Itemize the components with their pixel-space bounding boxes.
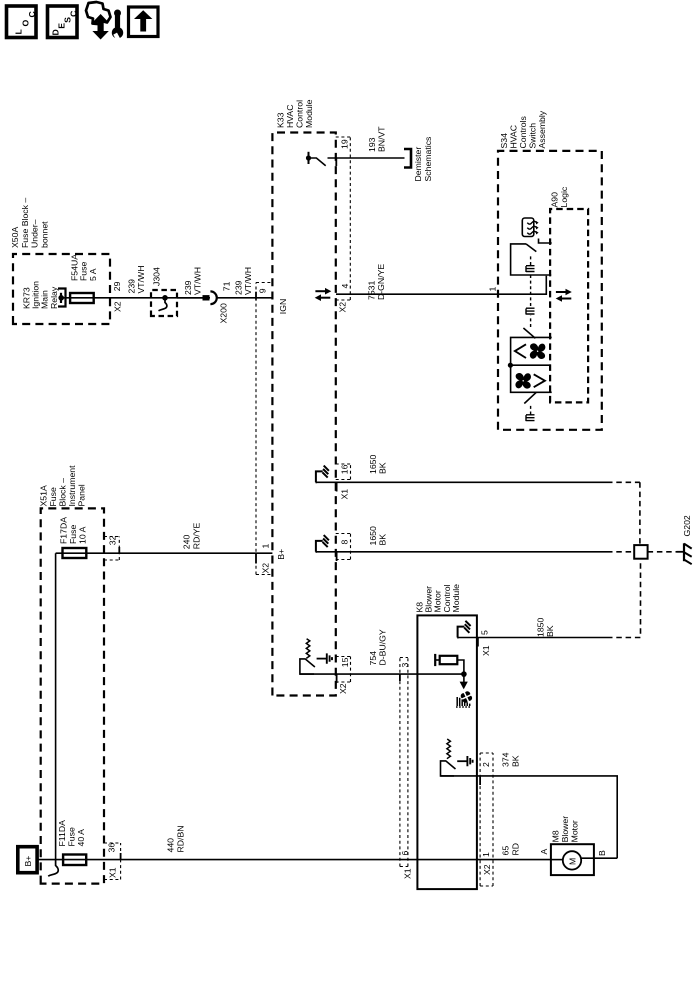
svg-text:Control: Control — [294, 100, 304, 128]
svg-text:B+: B+ — [276, 549, 286, 560]
svg-text:Fuse: Fuse — [48, 487, 58, 506]
battery terminal B+ — [18, 847, 37, 873]
svg-text:BK: BK — [378, 462, 388, 474]
svg-text:Module: Module — [451, 584, 461, 613]
blower motor M8 box — [551, 844, 594, 875]
svg-text:1: 1 — [481, 852, 491, 857]
svg-text:X200: X200 — [219, 303, 229, 323]
svg-text:19: 19 — [339, 139, 349, 149]
serial data arrows inside A90 — [556, 289, 572, 302]
svg-text:40 A: 40 A — [76, 829, 86, 847]
internal ground at pin 16 of K33 — [316, 466, 329, 483]
node junction dot K8 — [461, 671, 467, 677]
connector strip at pin 15 — [336, 657, 351, 683]
svg-text:bonnet: bonnet — [39, 221, 49, 248]
connector strip X2 bottom of K33 (pins 19,4) — [349, 137, 351, 300]
svg-text:Under–: Under– — [30, 219, 40, 248]
svg-text:X1: X1 — [107, 867, 117, 878]
connector strip at pin 8 — [336, 534, 351, 560]
heater element icon in S34 — [522, 218, 538, 237]
off-page connector bracket to Demister Schematics — [404, 149, 411, 168]
fuse F11DA — [63, 855, 86, 866]
wire 193 BN/VT from pin 19 — [328, 157, 405, 159]
svg-text:1650: 1650 — [368, 455, 378, 474]
inline connector X200 female terminal — [210, 291, 216, 304]
pin tick at pin 16 — [336, 482, 338, 491]
svg-text:X1: X1 — [339, 489, 349, 500]
fuse F17DA — [56, 552, 273, 554]
svg-text:RD/YE: RD/YE — [191, 522, 201, 549]
wire to ground G202 — [648, 551, 677, 553]
svg-text:239: 239 — [127, 279, 137, 294]
svg-text:7531: 7531 — [366, 281, 376, 300]
svg-text:Controls: Controls — [518, 115, 528, 148]
pin tick at pin 9 — [255, 292, 257, 300]
drive arrow to fan in K8 — [460, 674, 468, 689]
icon LOC button — [7, 6, 38, 38]
splice J304 box — [151, 290, 177, 316]
svg-text:4: 4 — [340, 284, 350, 289]
svg-text:X1: X1 — [481, 645, 491, 656]
internal ground at pin 5 of K8 — [457, 621, 470, 638]
svg-text:239: 239 — [234, 280, 244, 295]
svg-text:Instrument: Instrument — [67, 465, 77, 507]
svg-text:HVAC: HVAC — [285, 105, 295, 129]
svg-text:HVAC: HVAC — [509, 125, 519, 149]
svg-text:RD/BN: RD/BN — [175, 825, 185, 852]
ground G202 — [677, 543, 692, 564]
pin tick at pin 8 — [336, 552, 338, 561]
svg-text:D-GN/YE: D-GN/YE — [376, 264, 386, 300]
wire 1650 BK from pin 16 — [316, 481, 607, 483]
svg-text:A: A — [539, 849, 549, 855]
svg-text:Panel: Panel — [77, 484, 87, 506]
wire motor return from M8 — [581, 857, 617, 859]
fan icon inside K8 — [458, 689, 475, 706]
fan icon upper cell — [529, 342, 547, 360]
icon swap-with-wrench — [86, 2, 123, 43]
svg-text:8: 8 — [339, 540, 349, 545]
svg-text:C: C — [69, 10, 79, 17]
svg-text:X2: X2 — [338, 683, 348, 694]
pin tick at pin 2 — [479, 776, 481, 785]
svg-text:1650: 1650 — [368, 526, 378, 545]
svg-text:Switch: Switch — [528, 123, 538, 149]
switch to pin 19 inside K33 — [306, 152, 326, 166]
svg-text:10 A: 10 A — [77, 526, 87, 544]
module K8 Blower Motor Control Module box — [417, 615, 477, 889]
wire ignition feed inside X50A — [61, 297, 110, 299]
wire 239 VT/WH segment 1 — [110, 297, 203, 299]
svg-text:Block –: Block – — [58, 478, 68, 507]
solid state ground switch at pin 2 inside K8 — [441, 739, 473, 776]
svg-text:65: 65 — [501, 846, 511, 856]
speed ramp hatch inside K8 — [456, 697, 471, 707]
svg-text:BK: BK — [545, 625, 555, 637]
svg-text:Logic: Logic — [559, 186, 569, 207]
svg-text:F11DA: F11DA — [57, 820, 67, 847]
svg-text:Fuse: Fuse — [66, 827, 76, 846]
fuse block X50A box — [13, 254, 110, 324]
wire ground bus from pin 5 of K8 — [607, 559, 641, 638]
svg-text:6: 6 — [400, 851, 410, 856]
wire 754 into K8 pin 3 to internal node — [417, 673, 464, 675]
svg-text:B: B — [597, 850, 607, 856]
svg-text:Assembly: Assembly — [537, 110, 547, 148]
svg-text:X2: X2 — [260, 563, 270, 574]
svg-text:Demister: Demister — [413, 147, 423, 182]
svg-text:440: 440 — [166, 838, 176, 853]
svg-text:5 A: 5 A — [88, 268, 98, 281]
connector strip at pin 32 — [104, 537, 119, 561]
svg-text:M: M — [568, 858, 578, 865]
svg-text:X2: X2 — [482, 864, 492, 875]
svg-text:29: 29 — [112, 281, 122, 291]
module K33 HVAC Control Module box — [272, 133, 335, 696]
switch assembly S34 box — [498, 151, 602, 430]
internal ground at pin 8 of K33 — [316, 535, 329, 552]
wire 7531 D-GN/YE — [336, 276, 546, 295]
wire motor feed into M8 — [551, 859, 563, 861]
svg-text:F17DA: F17DA — [58, 517, 68, 544]
svg-text:S34: S34 — [499, 133, 509, 149]
svg-text:240: 240 — [182, 535, 192, 550]
svg-text:1: 1 — [487, 287, 497, 292]
svg-text:G202: G202 — [682, 515, 692, 536]
svg-text:X51A: X51A — [39, 485, 49, 506]
wire 1650 BK from pin 8 — [316, 551, 607, 553]
pin tick at pin 1 — [255, 553, 257, 563]
wire 239 VT/WH segment 3 — [217, 297, 272, 299]
solid state ground switch at pin 15 inside K33 — [300, 639, 332, 674]
svg-text:BN/VT: BN/VT — [377, 126, 387, 152]
pin tick at S34 pin 1 — [497, 288, 499, 294]
svg-text:BK: BK — [378, 534, 388, 546]
splice J304 — [162, 295, 168, 301]
splice to F17DA branch — [55, 553, 57, 859]
pin tick at pin 3 — [399, 674, 401, 681]
svg-text:754: 754 — [368, 651, 378, 666]
svg-text:1850: 1850 — [536, 618, 546, 637]
svg-text:239: 239 — [183, 280, 193, 295]
wire ground bus from pin 16 — [607, 481, 640, 483]
wire ground bus from pin 8 — [607, 551, 634, 553]
connector strip at pin 16 — [336, 464, 351, 480]
wire 1850 BK from pin 5 — [458, 637, 607, 639]
svg-text:Motor: Motor — [570, 820, 580, 842]
pin tick at pin 32 — [118, 547, 120, 553]
svg-text:1: 1 — [260, 544, 270, 549]
svg-text:IGN: IGN — [278, 299, 288, 314]
svg-text:O: O — [21, 20, 31, 27]
fan icon lower cell — [514, 372, 532, 390]
icon up-arrow button — [129, 7, 159, 37]
svg-text:15: 15 — [340, 657, 350, 667]
svg-text:L: L — [14, 29, 24, 35]
svg-text:J304: J304 — [152, 267, 162, 286]
svg-text:B+: B+ — [23, 856, 33, 867]
svg-text:5: 5 — [480, 630, 490, 635]
svg-text:2: 2 — [481, 762, 491, 767]
svg-text:16: 16 — [339, 464, 349, 474]
wire battery feed trunk — [37, 859, 551, 861]
inline connector X200 male terminal — [203, 295, 210, 300]
svg-text:M8: M8 — [551, 830, 561, 842]
svg-text:9: 9 — [257, 288, 267, 293]
logic module A90 box — [550, 209, 588, 402]
svg-text:D-BU/GY: D-BU/GY — [378, 629, 388, 665]
fan speed switch upper section in S34 — [511, 239, 552, 276]
svg-text:VT/WH: VT/WH — [193, 267, 203, 295]
fuse F54UA — [70, 293, 94, 303]
ground splice junction — [634, 545, 647, 559]
pin tick at pin 5 — [477, 638, 479, 647]
wire 239 VT/WH segment 2 — [177, 297, 210, 299]
svg-text:RD: RD — [510, 843, 520, 856]
svg-text:Fuse Block –: Fuse Block – — [20, 198, 30, 248]
mechanical link dashes and detents — [526, 273, 535, 421]
svg-text:X50A: X50A — [10, 227, 20, 248]
svg-text:3: 3 — [400, 663, 410, 668]
wire 754 D-BU/GY from pin 15 — [300, 673, 418, 675]
pin tick at pin 36 — [120, 853, 122, 860]
svg-text:36: 36 — [106, 843, 116, 853]
svg-text:Relay: Relay — [49, 286, 59, 309]
svg-text:X1: X1 — [402, 868, 412, 879]
svg-text:A90: A90 — [550, 192, 560, 208]
pin tick at pin 15 — [336, 674, 338, 683]
connector strip X2 top of K33 (pins 9,1) — [255, 283, 257, 575]
wire 374 BK from pin 2 — [441, 776, 618, 858]
fuse block X51A box — [41, 508, 104, 883]
svg-text:Fuse: Fuse — [68, 525, 78, 544]
svg-text:Module: Module — [304, 99, 314, 128]
svg-text:X2: X2 — [113, 301, 123, 312]
svg-text:Blower: Blower — [560, 816, 570, 843]
svg-text:C: C — [27, 11, 37, 18]
svg-text:VT/WH: VT/WH — [243, 267, 253, 295]
fan speed selector block in S34 — [508, 328, 552, 404]
svg-text:193: 193 — [367, 137, 377, 152]
svg-text:D: D — [51, 29, 61, 35]
svg-text:374: 374 — [501, 752, 511, 767]
pin tick at pin 19 — [335, 158, 337, 166]
serial data arrows at pin 4 inside K33 — [315, 288, 332, 301]
svg-text:K33: K33 — [275, 112, 285, 128]
motor symbol M — [563, 851, 581, 869]
svg-text:71: 71 — [222, 281, 232, 291]
connector strip at pin 36 — [104, 843, 121, 880]
relay KR73 contact — [58, 289, 66, 307]
resistor control branch in K8 — [435, 654, 464, 674]
icon DESC button — [48, 6, 79, 38]
svg-text:X2: X2 — [338, 302, 348, 313]
svg-text:VT/WH: VT/WH — [136, 266, 146, 294]
connector strip X1 of K8 (pins 3,6) — [400, 658, 408, 867]
svg-text:BK: BK — [510, 755, 520, 767]
connector strip X2 of K8 (pins 2,1) — [480, 753, 493, 886]
svg-text:Schematics: Schematics — [423, 136, 433, 182]
